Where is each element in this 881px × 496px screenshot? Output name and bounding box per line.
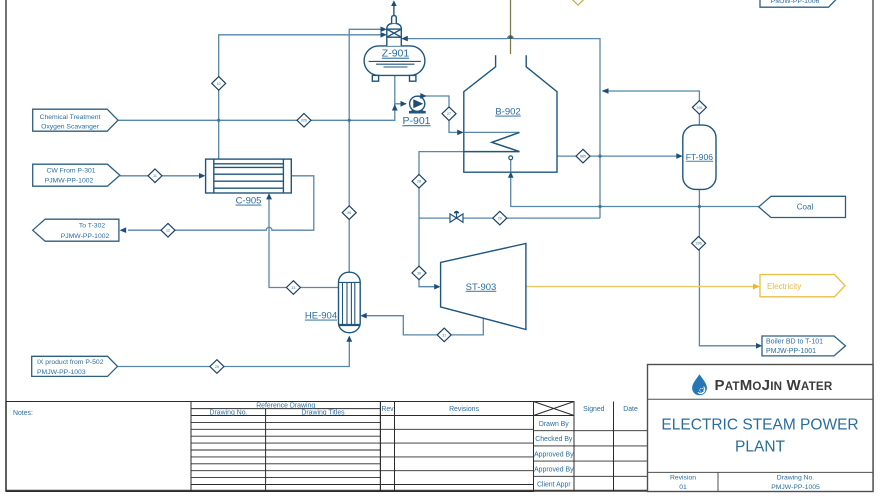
arrow up into B-902 bottom — [508, 172, 514, 178]
svg-text:Drawn By: Drawn By — [539, 421, 569, 428]
wire coal feed line into B-902 bottom — [511, 175, 759, 207]
arrow up into Z-901 outlet tee — [392, 104, 398, 110]
svg-text:01: 01 — [679, 484, 687, 491]
signed / date columns — [573, 402, 575, 492]
wire Z-901 column right feed from x600 riser — [513, 39, 600, 219]
B-902 burner feed line inside — [510, 160, 512, 175]
boiler B-902 — [464, 55, 557, 172]
logo water drop — [692, 374, 707, 395]
node 296 — [692, 237, 706, 251]
node 11 — [148, 169, 162, 183]
Z-901 liquid level lines — [369, 61, 421, 67]
svg-text:ST-903: ST-903 — [466, 282, 497, 293]
wire pump discharge to B-902 coil — [417, 96, 460, 132]
svg-text:FT-906: FT-906 — [686, 152, 713, 162]
svg-text:Boiler BD to T-101: Boiler BD to T-101 — [766, 339, 823, 346]
rev / revisions columns — [380, 402, 394, 492]
reference drawing table — [191, 402, 380, 492]
svg-text:PMJW-PP-1001: PMJW-PP-1001 — [766, 348, 816, 355]
svg-text:P-901: P-901 — [402, 115, 430, 127]
node 026 — [297, 114, 311, 128]
svg-text:PJMW-PP-1002: PJMW-PP-1002 — [61, 233, 110, 240]
notes box — [6, 402, 191, 492]
svg-text:26: 26 — [347, 211, 351, 215]
wire B-902 to FT-906 — [557, 155, 680, 157]
arrow into C-905 left — [199, 173, 206, 179]
Z-901 top nozzle — [392, 16, 397, 24]
arrow into Boiler BD connector — [756, 343, 762, 349]
svg-text:Client Appr: Client Appr — [537, 482, 571, 489]
connector chemical treatment — [33, 109, 118, 131]
svg-text:Z-901: Z-901 — [382, 48, 410, 60]
connector PMJW-PP-1006 top — [760, 0, 839, 7]
wire Z-901 drum outlet to pump suction — [395, 75, 406, 103]
connector Boiler BD to T-101 — [762, 336, 846, 356]
svg-text:To T-302: To T-302 — [79, 223, 106, 230]
revision / drawing no — [670, 475, 820, 491]
TITLE BLOCK — [648, 365, 874, 492]
node 26 — [342, 206, 356, 220]
pump P-901 — [410, 96, 425, 111]
page border left — [5, 0, 7, 492]
node 28 — [412, 174, 426, 188]
B-902 burner nozzle circle — [509, 156, 513, 160]
svg-text:Rev: Rev — [381, 406, 394, 413]
svg-text:ELECTRIC STEAM POWER: ELECTRIC STEAM POWER — [661, 417, 858, 434]
wire HE-904 left nozzle up to C-905 bottom — [269, 197, 339, 288]
svg-text:296: 296 — [696, 242, 702, 246]
P-901 base — [409, 111, 426, 114]
flash tank FT-906 — [683, 125, 716, 189]
svg-text:Electricity: Electricity — [767, 282, 801, 291]
arrow into Z-901 column upper left — [381, 27, 387, 33]
arrow vapor join at x600 riser — [602, 88, 609, 94]
svg-text:PMJW-PP-1006: PMJW-PP-1006 — [771, 0, 820, 5]
connector CW from P-301 — [33, 164, 120, 186]
svg-text:11: 11 — [153, 174, 157, 178]
svg-text:Coal: Coal — [797, 203, 814, 212]
connector Coal — [759, 196, 846, 217]
EQUIPMENT LABELS — [236, 48, 714, 322]
node 13 — [286, 281, 300, 295]
svg-text:CW From P-301: CW From P-301 — [46, 167, 95, 174]
svg-text:Oxygen Scavanger: Oxygen Scavanger — [41, 123, 100, 130]
connector To T-302 — [33, 219, 119, 241]
svg-text:C-905: C-905 — [236, 196, 262, 207]
svg-text:Checked By: Checked By — [535, 436, 573, 443]
svg-text:Reference Drawing: Reference Drawing — [256, 402, 315, 409]
wire blowdown valve branch — [419, 217, 600, 219]
svg-text:PATMOJIN WATER: PATMOJIN WATER — [715, 377, 833, 394]
wire C-905 outlet to To T-302 with hop — [128, 176, 314, 230]
Z-901 column with packing — [387, 23, 402, 46]
wire B-902 coil lower outlet down to ST-903 — [419, 152, 464, 287]
node 30 — [412, 266, 426, 280]
svg-text:10: 10 — [217, 82, 221, 86]
node 295 — [692, 101, 706, 115]
svg-text:B-902: B-902 — [495, 107, 520, 118]
approval x-box column — [534, 402, 575, 416]
column HE-904 — [339, 272, 361, 333]
flue gas olive line — [510, 0, 512, 54]
svg-text:Approved By: Approved By — [534, 467, 574, 474]
junction dots — [217, 119, 701, 208]
arrow into B-902 coil — [457, 130, 464, 136]
svg-text:Notes:: Notes: — [13, 410, 33, 417]
svg-text:31: 31 — [442, 333, 446, 337]
B-902 heating coil — [464, 131, 520, 133]
svg-text:13: 13 — [291, 286, 295, 290]
node 685 — [576, 149, 590, 163]
TABLE TEXTS — [13, 402, 638, 488]
node yellow top — [571, 0, 585, 5]
Z-901 legs — [372, 75, 378, 81]
heat exchanger C-905 — [206, 159, 292, 193]
node 10 — [212, 77, 226, 91]
EQUIPMENT — [206, 5, 716, 333]
wire continue to Z-901 right nozzle — [406, 38, 508, 40]
arrow vent up — [391, 0, 397, 6]
arrow into ST-903 — [434, 284, 440, 290]
svg-text:PLANT: PLANT — [735, 439, 785, 456]
arrow into To T-302 connector — [120, 227, 127, 233]
svg-text:Revisions: Revisions — [449, 406, 479, 413]
svg-text:28: 28 — [417, 180, 421, 184]
electricity yellow line — [526, 286, 755, 288]
ARROWHEADS — [120, 0, 763, 348]
blowdown valve — [450, 211, 463, 223]
hop over flue-gas line — [508, 36, 514, 39]
svg-text:30: 30 — [417, 271, 421, 275]
connector Electricity — [760, 275, 845, 297]
svg-text:PJMW-PP-1002: PJMW-PP-1002 — [45, 177, 94, 184]
arrow into Z-901 column lower left — [381, 32, 387, 38]
arrow on P-901 discharge — [420, 93, 426, 99]
svg-text:Drawing Titles: Drawing Titles — [301, 409, 345, 416]
page border right — [872, 0, 874, 492]
wire FT-906 bottoms to boiler BD connector — [699, 189, 759, 345]
PIPES — [118, 29, 760, 366]
node 25 — [210, 360, 224, 374]
STREAM DIAMONDS — [148, 0, 706, 373]
arrow into Z-901 column right — [401, 36, 408, 42]
arrow up into HE-904 bottom — [346, 336, 352, 342]
connector IX product — [32, 356, 118, 376]
wire x218 drop into C-905 top — [218, 120, 220, 159]
svg-text:PMJW-PP-1005: PMJW-PP-1005 — [771, 484, 820, 491]
svg-text:29: 29 — [498, 217, 502, 221]
node 12 — [161, 223, 175, 237]
wire chemical treatment line to Z-901 outlet tee — [118, 104, 395, 120]
arrow electricity yellow — [753, 284, 760, 290]
svg-text:25: 25 — [215, 365, 219, 369]
wire FT-906 vapor overhead to riser — [606, 91, 699, 125]
node 31 — [437, 328, 451, 342]
steam turbine ST-903 — [441, 244, 526, 330]
wire CW From P-301 to C-905 — [120, 175, 203, 177]
wire riser from chemical line up to Z-901 lower feed — [219, 35, 381, 121]
wire IX product to HE-904 bottom — [118, 339, 350, 367]
svg-text:Revision: Revision — [670, 475, 696, 482]
arrow into HE-904 right — [360, 313, 366, 319]
arrow into P-901 suction — [401, 101, 407, 107]
svg-text:Chemical Treatment: Chemical Treatment — [40, 114, 101, 121]
wire riser x349 from chemical line up to Z-901 upper feed — [349, 29, 381, 120]
svg-text:685: 685 — [580, 155, 586, 159]
arrow up into C-905 bottom — [266, 193, 272, 199]
vessel Z-901 deaerator drum — [364, 46, 425, 76]
wire ST-903 exhaust to HE-904 — [364, 316, 484, 335]
svg-text:026: 026 — [301, 119, 307, 123]
Z-901 vent line — [393, 5, 395, 15]
node 29 — [493, 211, 507, 225]
svg-text:295: 295 — [696, 106, 702, 110]
svg-text:IX product from P-502: IX product from P-502 — [37, 359, 104, 366]
page border bottom — [6, 490, 873, 492]
svg-text:Signed: Signed — [583, 406, 605, 413]
svg-text:Approved By: Approved By — [534, 451, 574, 458]
arrow into FT-906 — [676, 153, 682, 159]
wire x349 drop from chemical line to HE-904 top — [348, 120, 350, 272]
svg-text:Drawing No.: Drawing No. — [777, 475, 815, 482]
flue line crossing mark — [508, 35, 514, 39]
svg-text:PMJW-PP-1003: PMJW-PP-1003 — [37, 369, 86, 376]
svg-text:HE-904: HE-904 — [305, 311, 337, 322]
svg-text:Drawing No.: Drawing No. — [210, 409, 248, 416]
OFF-PAGE CONNECTORS — [32, 0, 846, 376]
svg-text:Date: Date — [623, 406, 638, 413]
svg-text:27: 27 — [447, 112, 451, 116]
node 27 — [442, 107, 456, 121]
svg-text:12: 12 — [166, 229, 170, 233]
